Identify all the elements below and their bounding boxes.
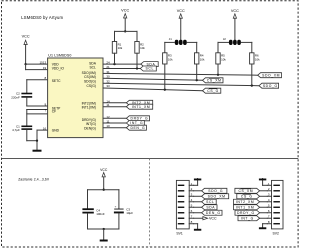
node DEN_G flag [126,125,146,130]
ground supply [100,229,108,242]
svg-text:DRDY_G: DRDY_G [237,211,255,215]
svg-text:INT1_XM: INT1_XM [236,205,255,209]
wire SETC [27,79,48,81]
svg-text:33: 33 [106,84,110,88]
svg-text:SCL: SCL [89,66,96,70]
node INT_G flag [126,121,144,126]
wire VCC rail [25,64,27,70]
svg-text:10k: 10k [255,57,260,61]
capacitor C1 [12,124,32,132]
junction GND [36,140,38,142]
wire SDO_XM [103,73,258,75]
ferrite bead J2 [223,37,241,45]
node SV2 INT_G flag [238,216,260,221]
svg-text:SCL: SCL [146,67,154,71]
IC U1 LSM6DS0 body [48,53,103,137]
node SDO_XM flag [258,73,282,78]
junction R2-SCL [136,67,138,69]
svg-text:10k: 10k [200,57,205,61]
connector SV1 [176,180,193,235]
svg-text:CF: CF [52,110,56,114]
svg-text:CS_XM: CS_XM [238,189,253,193]
svg-text:SV2: SV2 [273,231,280,235]
svg-text:VDD_IO: VDD_IO [52,66,65,70]
svg-text:VCC: VCC [209,217,217,221]
wire SV2 pin2 [260,190,268,192]
junction VCC supply [103,189,105,191]
wire DEN_G [103,127,126,129]
wire SDO_G [103,83,259,86]
svg-text:CS_G: CS_G [207,89,219,93]
wire supply bottom rail [88,228,119,230]
svg-text:15: 15 [39,60,43,64]
power VCC net2 [177,9,185,40]
svg-text:SCL: SCL [206,200,214,204]
wire C1 to GND net [26,130,28,141]
node SV2 INT2_XM flag [234,199,260,204]
svg-text:13: 13 [43,60,47,64]
svg-text:INT_G: INT_G [130,121,143,125]
node SV2 CS_XM flag [235,188,260,193]
svg-text:10k: 10k [221,57,226,61]
svg-text:16: 16 [43,127,47,131]
wire SV1 pin8 to gnd [194,223,198,225]
svg-text:100nF: 100nF [96,212,105,216]
resistor R2 [135,42,146,54]
resistor R6 [250,53,261,64]
node INT1_XM flag [126,104,152,109]
pin numbers U1 [39,60,110,130]
node SV2 DRDY_G flag [235,210,260,215]
node DRDY_G flag [126,116,149,121]
node SV2 CS_G flag [237,194,260,199]
ground SV2 bottom [259,227,266,229]
svg-text:VCC: VCC [231,9,239,13]
capacitor C3 (polarized) [114,204,133,215]
connector SV2 [267,180,283,235]
wire R5 bottom lead [217,64,219,75]
wire SV2 pin6 [260,212,268,214]
svg-text:CS_XM: CS_XM [207,78,222,82]
svg-text:GND: GND [52,128,60,132]
wire CF pin [27,109,48,111]
node INT2_XM flag [126,100,152,105]
wire R2 top lead [136,31,138,41]
wire SV1 pin1 to gnd [194,184,198,186]
svg-text:SDO_XM: SDO_XM [208,194,226,198]
svg-text:DRDY_G: DRDY_G [131,116,149,120]
section divider vertical (dashed) [149,158,151,246]
wire INT1_XM [103,106,126,108]
svg-text:SV1: SV1 [176,232,183,236]
svg-text:10µF: 10µF [126,211,133,215]
svg-text:4,7µF: 4,7µF [12,128,20,132]
node CS_G flag [203,88,221,93]
ferrite bead J1 [169,37,187,45]
svg-text:10k: 10k [118,46,123,50]
node SCL flag [140,66,156,71]
wire J1 left [165,41,175,43]
node SV1 SCL flag [202,199,217,204]
wire CS_G [103,88,203,91]
svg-text:32: 32 [106,79,110,83]
svg-text:19: 19 [43,66,47,70]
wire R2 bottom lead [136,53,138,68]
svg-text:Zasilanie 2,4...3,6V: Zasilanie 2,4...3,6V [18,177,50,181]
wire INT2_XM [103,102,126,104]
capacitor C4 [82,208,104,216]
svg-text:+: + [115,204,117,208]
svg-text:DEN_G: DEN_G [206,211,221,215]
wire R6 bottom lead [251,64,253,86]
wire SV1 pin7 VCC [194,217,203,219]
wire VDD_IO [26,69,48,71]
wire SDA [103,63,141,65]
svg-text:CS(G): CS(G) [87,84,96,88]
wire SV2 pin1 to gnd [263,184,268,186]
svg-text:VCC: VCC [177,9,185,13]
svg-text:SDA: SDA [206,205,215,209]
svg-text:VCC: VCC [121,9,129,13]
wire J1 right [187,41,197,43]
wire SV2 pin7 [260,217,268,219]
wire SV2 pin8 to gnd [263,223,268,225]
wire SV1 pin3 [194,195,202,197]
wire R1 bottom lead [114,53,116,64]
svg-text:J2: J2 [223,37,226,41]
svg-text:LSM6DS0 by Artyum: LSM6DS0 by Artyum [21,15,63,20]
node SV1 SDA flag [202,205,217,210]
wire SCL [103,68,140,70]
wire R3 bottom lead [164,64,166,90]
node SDO_G flag [259,83,279,88]
ground SV1 top [194,179,201,186]
junction VDD rail [24,63,26,65]
junction R4-CS_XM [196,79,198,81]
wire C2 to SETP [26,98,28,106]
junction R3-CS_G [164,89,166,91]
power VCC supply [100,168,108,190]
power VCC net3 [231,9,239,40]
wire J2 left [218,41,229,43]
svg-text:CS_G: CS_G [241,194,253,198]
wire SV1 pin4 [194,201,202,203]
wire SV2 pin4 [260,201,268,203]
wire C4 top lead [87,190,89,209]
svg-text:SDO_G: SDO_G [208,189,223,193]
wire R1 top lead [114,31,116,41]
resistor R4 [195,53,206,64]
wire pin mid [27,113,48,115]
svg-text:INT_G: INT_G [241,216,254,220]
ground SV1 bottom [194,229,201,231]
ground SV2 top [259,179,266,186]
wire C4 bottom lead [87,214,89,230]
junction R6-SDO_G [251,84,253,86]
wire R4 bottom lead [196,64,198,80]
wire DRDY_G [103,117,126,119]
ground main [33,141,42,152]
svg-text:10k: 10k [168,57,173,61]
wire J2 right [241,41,252,43]
svg-text:INT2_XM: INT2_XM [236,200,255,204]
svg-text:10k: 10k [140,46,145,50]
wire SV2 pin3 [260,195,268,197]
wire INT_G [103,122,126,124]
wire SV2 pin5 [260,206,268,208]
power VCC net1 [121,9,129,32]
node SDA flag [141,62,158,67]
junction R5-SDO_XM [217,74,219,76]
resistor R1 [112,42,123,54]
svg-text:U1 LSM6DS0: U1 LSM6DS0 [48,53,71,57]
node SV1 DEN_G flag [202,210,222,215]
wire net1 top [115,30,138,32]
junction VCC net1 [124,30,126,32]
wire SV1 pin5 [194,206,202,208]
svg-text:SDO(G): SDO(G) [84,79,96,83]
svg-text:VCC: VCC [100,168,108,172]
power VCC SV1 [203,217,217,221]
wire CS_XM [103,78,203,80]
wire VDD [26,63,48,65]
resistor R3 [163,53,174,64]
wire SV1 pin6 [194,212,202,214]
node CS_XM flag [203,78,224,83]
junction supply gnd [103,228,105,230]
svg-text:INT1_XM: INT1_XM [132,105,151,109]
wire GND pin [37,129,48,131]
svg-text:INT1(XM): INT1(XM) [82,105,96,109]
junction R1-SDA [113,63,115,65]
svg-text:J1: J1 [169,37,172,41]
wire supply top rail [88,189,119,191]
svg-text:SETC: SETC [52,79,61,83]
node SV1 SDO_G flag [202,188,227,193]
resistor R5 [216,53,227,64]
power VCC main [22,35,30,65]
svg-text:VCC: VCC [22,35,30,39]
node SV2 INT1_XM flag [234,205,260,210]
capacitor C2 [11,92,32,100]
svg-text:DEN(G): DEN(G) [84,126,96,130]
node SV1 SDO_XM flag [202,194,229,199]
section divider horizontal [2,157,298,159]
svg-text:DEN_G: DEN_G [131,126,146,130]
svg-text:220nF: 220nF [11,96,20,100]
wire C3 top lead [118,190,120,209]
svg-text:SDO_XM: SDO_XM [262,73,280,77]
wire C3 bottom lead [118,213,120,229]
svg-text:SDO_G: SDO_G [263,84,278,88]
wire SV1 pin2 [194,190,202,192]
